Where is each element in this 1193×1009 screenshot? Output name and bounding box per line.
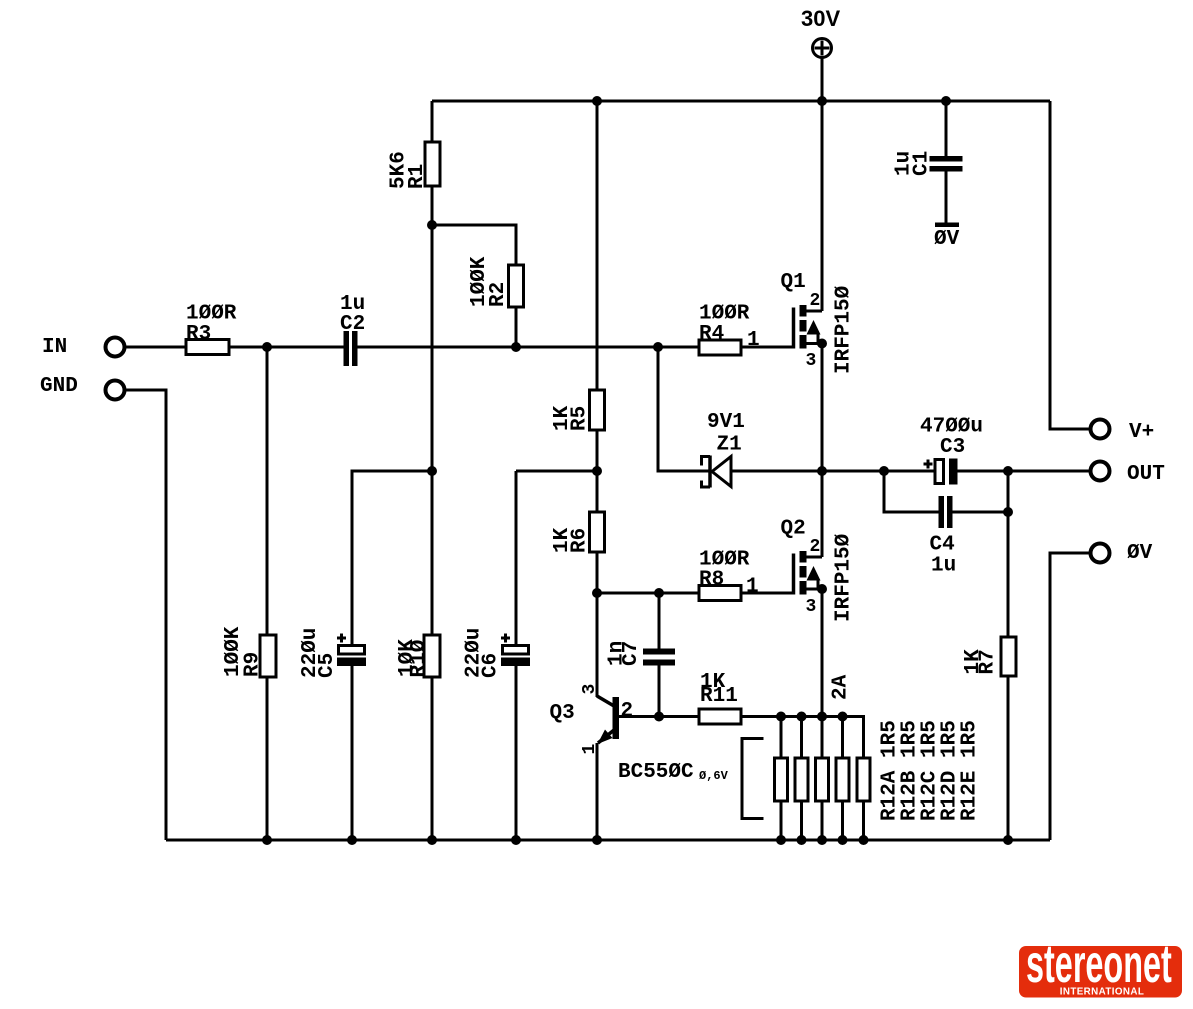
svg-text:C5: C5 [316, 653, 339, 678]
svg-text:R8: R8 [699, 569, 724, 592]
svg-text:R7: R7 [977, 649, 1000, 674]
node input row / zener branch [653, 342, 663, 352]
wire R6 bottom to Q3 collector node [596, 552, 599, 697]
wire C7 column bottom [658, 666, 661, 717]
svg-text:IRFP15Ø: IRFP15Ø [833, 533, 856, 622]
svg-text:1u: 1u [931, 555, 956, 578]
svg-text:2: 2 [810, 291, 821, 311]
wire C1 bottom to 0V tick [945, 172, 948, 225]
terminal V+ [1091, 420, 1155, 445]
wire R12C bottom lead [821, 801, 824, 840]
wire C6 bottom to bottom rail [515, 666, 518, 840]
wire output row to C3 [822, 470, 935, 473]
wire C5 branch (node to C5 top) [352, 471, 432, 646]
svg-text:3: 3 [806, 351, 817, 371]
terminal OUT [1091, 462, 1165, 487]
resistor R12A 1R5 [775, 720, 902, 821]
wire R8 to Q2 gate [741, 592, 794, 595]
resistor R11 1K [699, 671, 741, 724]
node top rail / 30V stem [817, 96, 827, 106]
transistor Q3 BC550C NPN [550, 684, 729, 784]
node bottom rail / R12A [776, 835, 786, 845]
wire R11 to R12 top row [741, 717, 864, 759]
wire top supply rail [432, 100, 1050, 103]
svg-text:INTERNATIONAL: INTERNATIONAL [1060, 987, 1144, 998]
wire R1 bottom to bias node [431, 186, 434, 225]
wire GND terminal down to bottom rail [126, 390, 166, 840]
svg-text:IN: IN [42, 336, 67, 359]
wire zener branch from input row [658, 347, 710, 471]
resistor R1 5K6 [388, 142, 441, 189]
wire R10 column (node down to R10) [431, 471, 434, 635]
node R5-R6 / C6 [592, 466, 602, 476]
wire R12E bottom lead [862, 801, 865, 840]
capacitor C5 220u polarized [299, 628, 366, 678]
svg-text:stereonet: stereonet [1026, 935, 1172, 994]
node R1-R2 bias [427, 220, 437, 230]
stereonet logo [1019, 935, 1182, 998]
wire 0V terminal to bottom rail [1050, 553, 1089, 840]
capacitor C6 220u polarized [463, 628, 531, 678]
wire R12A top lead [780, 717, 783, 759]
node input row / R2 [511, 342, 521, 352]
svg-text:OUT: OUT [1127, 463, 1165, 486]
node output / R7 column [1003, 466, 1013, 476]
svg-text:C1: C1 [911, 151, 934, 176]
wire 30V stem [821, 58, 824, 102]
node R11 row / R12A [776, 712, 786, 722]
node bias / R10-C5 [427, 466, 437, 476]
wire R9 column (input node down) [266, 347, 269, 635]
svg-text:Ø,6V: Ø,6V [699, 769, 729, 783]
wire Q3 emitter down to bottom rail [596, 743, 599, 840]
svg-text:1: 1 [580, 744, 600, 755]
wire C6 branch (C6 top to R5/R6 node) [516, 470, 597, 473]
svg-text:Q3: Q3 [550, 702, 575, 725]
wire R7 column from output row [1007, 471, 1010, 637]
node bottom rail / R10 [427, 835, 437, 845]
30V supply terminal [801, 6, 840, 58]
svg-text:R1Ø: R1Ø [408, 639, 431, 677]
plus sign [927, 460, 930, 469]
node C4 / R7 column [1003, 507, 1013, 517]
wire R12B top lead [800, 717, 803, 759]
svg-text:Q1: Q1 [781, 271, 806, 294]
node input row / R9 [262, 342, 272, 352]
node bottom rail / R12B [797, 835, 807, 845]
wire Q3 base row to R11 [619, 715, 699, 718]
capacitor C3 4700u polarized [920, 416, 983, 485]
wire R12A bottom lead [780, 801, 783, 840]
node R11 row / R12B [797, 712, 807, 722]
node bottom rail / C5 [347, 835, 357, 845]
svg-text:IRFP15Ø: IRFP15Ø [833, 285, 856, 374]
resistor R6 1K [551, 512, 605, 553]
node output / C3-C4 branch [879, 466, 889, 476]
wire R5 bottom to mid node [596, 430, 599, 512]
wire right rail down to V+ [1050, 101, 1089, 429]
resistor R4 100R [699, 303, 760, 356]
wire C5 bottom to bottom rail [351, 666, 354, 840]
svg-text:GND: GND [40, 375, 78, 398]
resistor R12D 1R5 [836, 720, 962, 821]
wire output node to Q2 drain [821, 471, 824, 557]
capacitor C7 1n [606, 641, 676, 666]
wire R12B bottom lead [800, 801, 803, 840]
ground 0V below C1 [934, 223, 960, 252]
resistor R5 1K [551, 390, 605, 431]
node bottom rail / C6 [511, 835, 521, 845]
wire R10 bottom to bottom rail [431, 677, 434, 840]
svg-text:BC55ØC: BC55ØC [618, 761, 694, 784]
node bottom rail / R12C [817, 835, 827, 845]
svg-text:3: 3 [580, 684, 600, 695]
wire C6 column top [515, 471, 518, 646]
capacitor C4 1u [930, 496, 957, 578]
wire C4 branch right [953, 511, 1009, 514]
wire zener anode to output node [731, 470, 822, 473]
wire R3 to C2 with node branch [229, 346, 344, 349]
terminal IN [42, 336, 125, 359]
node top rail / C1 [941, 96, 951, 106]
wire C2 to R4 (input row) [358, 346, 700, 349]
svg-text:C4: C4 [930, 534, 955, 557]
plus sign [504, 634, 507, 643]
node R8 row / C7 [654, 588, 664, 598]
svg-text:R1: R1 [406, 164, 429, 189]
svg-text:Z1: Z1 [717, 434, 742, 457]
wire Q1 source to output node [821, 344, 824, 472]
node Q2 source [817, 584, 827, 594]
resistor R7 1K [962, 637, 1016, 676]
resistor R12B 1R5 [795, 720, 922, 821]
node Q1 source [817, 339, 827, 349]
svg-text:C7: C7 [620, 641, 643, 666]
resistor R3 100R [186, 303, 237, 355]
resistor R12E 1R5 [857, 720, 982, 821]
svg-text:R9: R9 [242, 652, 265, 677]
svg-text:R6: R6 [569, 528, 592, 553]
resistor R12C 1R5 [816, 720, 942, 821]
terminal 0V [1091, 542, 1153, 565]
svg-text:R12E 1R5: R12E 1R5 [959, 720, 982, 821]
svg-text:C2: C2 [340, 313, 365, 336]
svg-text:ØV: ØV [934, 228, 960, 251]
wire R6 node to R8 [597, 592, 699, 595]
wire MOSFET column top rail to Q1 drain [821, 101, 824, 311]
svg-text:2: 2 [621, 700, 634, 723]
svg-text:C6: C6 [480, 653, 503, 678]
svg-text:Q2: Q2 [781, 518, 806, 541]
wire bias node to R2 top [432, 225, 516, 265]
wire R9 bottom to bottom rail [266, 677, 269, 840]
resistor R10 10K [396, 635, 440, 678]
plus sign [340, 634, 343, 643]
svg-text:2: 2 [810, 537, 821, 557]
wire R12D top lead [841, 717, 844, 759]
transistor Q1 IRFP150 N-MOSFET [781, 271, 856, 374]
wire IN terminal to R3 [126, 346, 186, 349]
node R11 row / R12D [838, 712, 848, 722]
wire bottom rail [166, 839, 1050, 842]
wire R7 bottom to bottom rail [1007, 676, 1010, 840]
node top rail / R5 column [592, 96, 602, 106]
svg-text:1: 1 [747, 329, 760, 352]
wire bias node down across input row to R10 node [431, 225, 434, 471]
svg-text:ØV: ØV [1127, 542, 1153, 565]
resistor R9 100K [222, 626, 276, 677]
svg-text:1: 1 [746, 576, 759, 599]
resistor R8 100R [699, 549, 759, 601]
svg-text:R3: R3 [186, 323, 211, 346]
svg-text:R11: R11 [700, 685, 738, 708]
svg-text:3: 3 [806, 597, 817, 617]
svg-text:R2: R2 [487, 282, 510, 307]
wire C7 column top [658, 593, 661, 649]
wire Q2 source down to R12 row [821, 589, 824, 717]
terminal GND [40, 375, 125, 400]
svg-text:2A: 2A [830, 674, 853, 700]
svg-text:9V1: 9V1 [707, 411, 745, 434]
node R8 row / R6 column [592, 588, 602, 598]
node R11 row / C7 [654, 712, 664, 722]
capacitor C2 1u [340, 293, 365, 366]
wire C4 branch left [884, 471, 939, 512]
resistor R2 100K [468, 256, 524, 307]
node bottom rail / R7 [1003, 835, 1013, 845]
bracket for 0,6V measurement [742, 739, 764, 819]
node bottom rail / R9 [262, 835, 272, 845]
capacitor C1 1u [893, 151, 963, 176]
wire R5 column from top rail [596, 101, 599, 390]
svg-text:V+: V+ [1129, 421, 1154, 444]
svg-text:R4: R4 [699, 323, 724, 346]
node bottom rail / R12E [859, 835, 869, 845]
node R11 row / R12C [817, 712, 827, 722]
wire C1 column top [945, 101, 948, 156]
svg-text:C3: C3 [940, 436, 965, 459]
transistor Q2 IRFP150 N-MOSFET [781, 518, 856, 623]
svg-text:R5: R5 [569, 406, 592, 431]
zener Z1 9V1 [702, 411, 745, 488]
wire R2 bottom to input row [515, 307, 518, 347]
wire C3 to OUT terminal [958, 470, 1090, 473]
node bottom rail / Q3 emitter [592, 835, 602, 845]
wire R12D bottom lead [841, 801, 844, 840]
node bottom rail / R12D [838, 835, 848, 845]
wire R12C top lead [821, 717, 824, 759]
svg-text:30V: 30V [801, 6, 840, 31]
wire R1 column (top rail to R1) [431, 101, 434, 142]
node output / MOSFET column [817, 466, 827, 476]
wire R4 to Q1 gate [741, 346, 794, 349]
